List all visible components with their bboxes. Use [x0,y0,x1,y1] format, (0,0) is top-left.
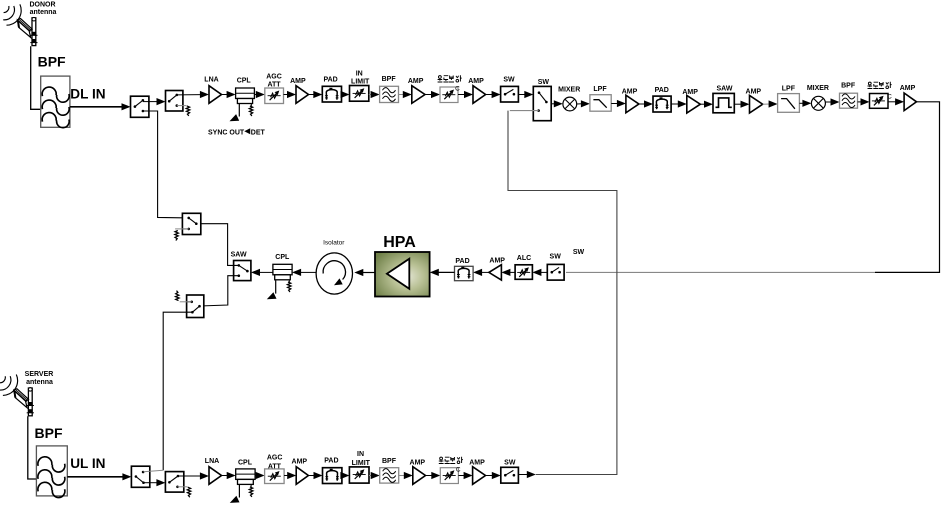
wire BPF2 to temp-comp2 [858,101,862,103]
limiter IN LIMIT (top) [350,86,369,102]
svg-text:AMP: AMP [489,258,505,265]
filter BPF (top chain) [380,86,399,102]
wire SW3 output arrow [518,474,527,476]
svg-text:LIMIT: LIMIT [352,460,371,467]
amplifier AMP11 (bottom) [473,467,486,485]
svg-text:SAW: SAW [231,252,247,259]
svg-text:AMP: AMP [622,89,638,96]
svg-text:C: C [887,94,892,101]
wire PAD to IN LIMIT [342,94,344,96]
svg-text:SW: SW [503,77,515,84]
wire temp-comp to AMP3 [458,94,465,96]
svg-text:PAD: PAD [655,87,669,94]
wire MIXER2 to BPF2 [825,101,831,103]
svg-text:SYNC OUT: SYNC OUT [208,130,245,137]
wire PAD2 to AMP5 [671,103,679,105]
svg-text:SW: SW [504,460,516,467]
svg-text:LPF: LPF [782,86,796,93]
terminator on S2 unused port [177,105,187,107]
svg-text:AGC: AGC [266,74,282,81]
amplifier AMP5 (IF) [687,95,701,113]
wire LNA to CPL [222,94,229,96]
switch S2 (DL front-end) [166,91,183,112]
mixer MIXER2 [811,96,825,110]
switch mid-lower (to server path) [187,295,204,318]
amplifier AMP8 (mid, leftward) [489,265,502,280]
svg-text:C: C [455,86,460,93]
svg-text:DET: DET [251,130,266,137]
terminator on CPL3 [250,485,252,487]
label temperature compensation (IF) [868,82,892,89]
port tap on CPL3 [238,485,240,498]
switch SW1 (top chain) [501,86,519,102]
svg-text:PAD: PAD [323,77,337,84]
wire S3 to S4 [144,482,158,484]
wire SAW to lower mid switch [200,276,239,306]
antenna server (panel antenna) [0,375,34,416]
svg-text:LPF: LPF [593,86,607,93]
wire AGC2 to AMP9 [284,475,288,477]
switch S4 (UL front-end) [165,472,183,493]
attenuator temp-comp (IF) [870,94,893,109]
svg-text:BPF: BPF [841,83,856,90]
antenna donor (panel antenna) [3,4,37,45]
svg-text:BPF: BPF [38,54,66,70]
pad attenuator PAD (top) [322,86,341,102]
switch SW3 (bottom chain) [501,467,519,483]
mixer MIXER1 [563,97,577,111]
port SYNC OUT/DET tap [238,104,240,117]
coupler CPL3 (bottom) [236,469,255,485]
svg-text:PAD: PAD [324,458,338,465]
attenuator temp-comp (top) [440,86,460,103]
label temperature compensation (bottom) [439,457,463,464]
amplifier LNA (top) [209,86,222,104]
svg-text:AMP: AMP [410,460,426,467]
svg-text:SW: SW [538,79,550,86]
svg-text:AMP: AMP [682,89,698,96]
filter LPF1 (low-pass) [590,95,611,112]
svg-text:AMP: AMP [292,459,308,466]
wire AMP4 to PAD2 [639,103,645,105]
wire AGC to AMP1 [284,94,289,96]
amplifier LNA2 (bottom) [209,467,222,485]
wire mid path into S3 [144,470,164,472]
filter BPF server (band-pass) [36,446,67,498]
amplifier AMP10 (bottom) [413,467,426,485]
isolator circulator [316,253,352,294]
wire SW to ALC [540,271,548,273]
wire BPF3 to AMP10 [399,475,405,477]
svg-text:LNA: LNA [204,77,218,84]
amplifier AMP2 (top) [412,86,425,104]
wire S2 to LNA [177,94,201,96]
label temperature compensation (top) [438,75,462,82]
svg-text:IN: IN [356,71,363,78]
svg-text:ALC: ALC [517,255,531,262]
attenuator ALC [515,265,532,280]
svg-text:SERVER: SERVER [25,371,54,378]
svg-text:LIMIT: LIMIT [351,79,370,86]
coupler CPL2 (mid) [273,264,292,280]
svg-text:AMP: AMP [290,78,306,85]
svg-text:AMP: AMP [900,85,916,92]
svg-text:DL IN: DL IN [70,87,105,102]
switch SW2 (TDD transfer switch) [533,86,551,120]
svg-text:AMP: AMP [746,89,762,96]
wire AMP1 to PAD [309,94,315,96]
wire DL IN to switch S1 [70,106,123,108]
pad attenuator PAD2 (IF) [653,96,671,112]
coupler CPL (top) [236,88,255,104]
filter SAW (IF) [713,93,734,112]
wire PAD3 to HPA [438,271,455,273]
svg-text:PAD: PAD [455,258,469,265]
pad attenuator PAD3 (mid) [455,266,474,280]
terminator on CPL2 [288,280,290,282]
filter LPF2 (low-pass) [778,94,800,113]
wire IN LIMIT2 to BPF3 [369,475,372,477]
svg-text:AMP: AMP [468,78,484,85]
svg-text:SAW: SAW [717,86,733,93]
wire temp-comp3 to AMP11 [458,475,465,477]
wire S1 to S2 [143,101,157,103]
svg-text:CPL: CPL [238,460,253,467]
amplifier AMP9 (bottom) [296,467,308,485]
wire temp-comp2 to AMP7 [888,101,896,103]
svg-text:BPF: BPF [35,425,63,441]
wire CPL to AGC ATT [254,94,257,96]
svg-text:AMP: AMP [469,460,485,467]
wire AMP2 to temp-comp [425,94,432,96]
svg-text:BPF: BPF [382,458,397,465]
wire CPL2 to SAW switch [259,271,273,273]
switch SW (mid chain) [547,264,564,280]
wire ALC to AMP8 [509,271,516,273]
switch SAW (mid splitter) [234,261,251,281]
svg-text:antenna: antenna [30,9,57,16]
wire AMP3 to SW1 [486,94,492,96]
terminator on mid-lower switch [180,301,192,303]
wire isolator to CPL2 [301,271,316,273]
wire CPL3 to AGC ATT2 [255,475,257,477]
switch S3 (UL front-end) [131,466,149,487]
wire MIXER1 to LPF1 [577,103,582,105]
svg-text:MIXER: MIXER [807,85,829,92]
svg-text:IN: IN [357,451,364,458]
wire IN LIMIT to BPF [369,94,372,96]
wire BPF to AMP2 [399,94,405,96]
svg-text:C: C [456,467,461,474]
wire right edge to mid chain SW (grey) [566,271,875,273]
terminator on mid-upper switch [175,228,189,230]
wire S4 to LNA2 [178,475,201,477]
wire S1 TX port down to mid switch [143,111,189,218]
svg-text:AMP: AMP [408,78,424,85]
amplifier AMP3 (top) [473,86,486,104]
wire AMP8 to PAD3 [481,271,489,273]
wire AMP10 to temp-comp3 [426,475,433,477]
wire UL return path up [508,111,617,475]
wire SAW to AMP6 [734,103,742,105]
amplifier AMP4 (IF) [626,95,639,113]
svg-text:MIXER: MIXER [558,87,580,94]
filter BPF3 (bottom chain) [380,468,399,483]
wire AMP7 to right edge and down [875,102,940,273]
amplifier AMP6 (IF) [750,95,763,113]
power amplifier HPA [375,252,430,297]
wire server antenna to BPF [28,416,37,479]
svg-text:UL IN: UL IN [70,456,105,471]
wire SW1 to SW2 [518,94,525,96]
svg-text:AGC: AGC [267,455,283,462]
wire SW2 to MIXER1 [551,103,555,105]
wire AMP6 to LPF2 [763,103,770,105]
switch S1 (DL front-end) [131,96,149,117]
attenuator temp-comp (bottom) [440,467,461,484]
wire AMP5 to SAW [700,103,705,105]
filter BPF2 (IF band-pass) [840,93,858,108]
wire AMP11 to SW3 [486,475,493,477]
wire donor antenna to BPF [31,46,41,109]
wire SAW to upper mid switch [196,224,239,266]
switch mid-upper (to donor path) [182,213,200,234]
attenuator AGC ATT (top) [265,88,284,104]
svg-text:antenna: antenna [26,379,53,386]
svg-text:SW: SW [573,249,585,256]
terminator on CPL (top) [250,104,252,107]
wire AMP9 to PAD4 [308,475,314,477]
port tap on CPL2 [275,280,277,293]
pad attenuator PAD4 (bottom) [323,468,342,484]
svg-text:CPL: CPL [237,78,252,85]
svg-text:CPL: CPL [275,254,290,261]
svg-text:Isolator: Isolator [323,240,345,247]
filter BPF donor (band-pass) [41,76,70,128]
attenuator AGC ATT2 (bottom) [265,469,285,484]
svg-text:DONOR: DONOR [29,2,55,9]
svg-text:LNA: LNA [205,458,219,465]
wire LNA2 to CPL3 [222,475,229,477]
limiter IN LIMIT2 (bottom) [349,467,369,483]
amplifier AMP7 (DL output) [904,93,916,111]
wire HPA to isolator [362,272,375,274]
wire mid-lower switch to server front-end [163,312,192,470]
svg-text:SW: SW [550,254,562,261]
svg-text:HPA: HPA [383,234,416,251]
wire UL IN to switch S3 [67,476,123,478]
amplifier AMP1 (top) [296,86,309,104]
wire LPF1 to AMP4 [611,103,618,105]
wire UL return into SW2 [510,110,539,112]
svg-text:BPF: BPF [382,76,397,83]
wire PAD4 to IN LIMIT2 [342,475,343,477]
wire LPF2 to MIXER2 [799,102,804,104]
terminator on S4 unused port [178,486,188,488]
